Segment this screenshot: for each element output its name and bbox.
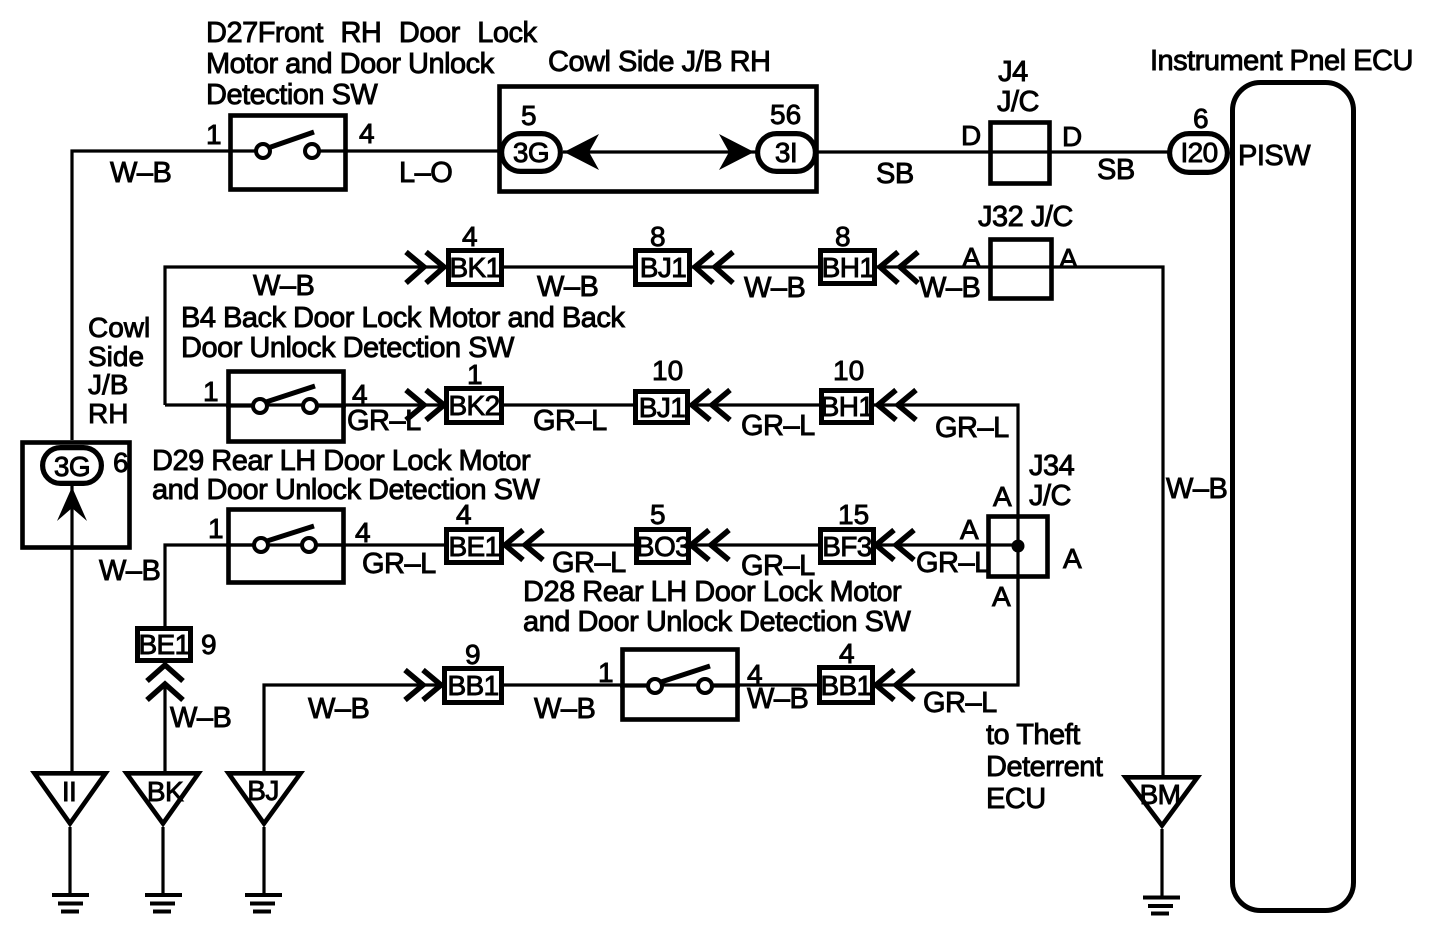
svg-text:W–B: W–B xyxy=(534,693,595,725)
svg-text:BB1: BB1 xyxy=(447,670,498,701)
arrow right into 3I xyxy=(719,134,754,170)
svg-text:D: D xyxy=(961,120,981,151)
svg-text:4: 4 xyxy=(355,517,371,548)
connector BB1 second row5 xyxy=(820,668,873,703)
svg-text:8: 8 xyxy=(835,221,851,252)
arrow up into 3G xyxy=(57,487,87,521)
svg-text:Cowl Side J/B RH: Cowl Side J/B RH xyxy=(548,46,770,78)
label B4 Back Door Lock Motor xyxy=(181,302,625,364)
chevrons left after BJ1 xyxy=(695,252,733,283)
svg-text:W–B: W–B xyxy=(1166,473,1227,505)
svg-text:BK2: BK2 xyxy=(448,390,499,421)
svg-text:W–B: W–B xyxy=(537,271,598,303)
svg-text:W–B: W–B xyxy=(308,693,369,725)
svg-text:Motor and Door Unlock: Motor and Door Unlock xyxy=(206,48,495,80)
connector BE1 (left, row5) xyxy=(138,629,191,661)
svg-text:1: 1 xyxy=(598,657,614,688)
svg-text:ECU: ECU xyxy=(986,783,1046,815)
svg-text:D28 Rear LH Door Lock Motor: D28 Rear LH Door Lock Motor xyxy=(523,576,902,608)
svg-text:10: 10 xyxy=(652,355,683,386)
svg-text:Instrument Pnel ECU: Instrument Pnel ECU xyxy=(1150,45,1413,77)
wire left vertical to II xyxy=(70,550,73,771)
ground BK xyxy=(145,895,182,912)
svg-text:BO3: BO3 xyxy=(636,531,690,562)
svg-text:GR–L: GR–L xyxy=(741,410,815,442)
svg-text:A: A xyxy=(960,514,979,545)
connector BO3 xyxy=(636,530,690,563)
svg-text:GR–L: GR–L xyxy=(533,405,607,437)
label J4 J/C xyxy=(997,56,1039,118)
connector BF3 xyxy=(821,530,874,563)
label D28 Rear LH Door Lock Motor xyxy=(523,576,911,638)
svg-text:BJ1: BJ1 xyxy=(639,392,685,423)
svg-text:A: A xyxy=(962,242,981,273)
connector 3G oval xyxy=(502,134,561,172)
wire W-B row2 from corner to BM wire xyxy=(165,267,1163,775)
label D27 Front RH Door Lock Motor and Door Unlock Detection SW xyxy=(206,17,538,111)
chevrons left row3 b xyxy=(878,390,916,420)
chevrons right row5 xyxy=(405,670,441,700)
svg-text:L–O: L–O xyxy=(399,157,452,189)
svg-text:BK: BK xyxy=(147,776,184,807)
switch B4 xyxy=(226,372,346,442)
wire W-B from D27 pin1 down left side xyxy=(72,151,228,440)
svg-text:A: A xyxy=(993,481,1012,512)
connector BK1 xyxy=(449,251,502,285)
svg-text:J/C: J/C xyxy=(1029,480,1071,512)
svg-text:PISW: PISW xyxy=(1238,140,1311,172)
svg-text:4: 4 xyxy=(462,221,478,252)
svg-text:9: 9 xyxy=(465,639,481,670)
svg-text:BH1: BH1 xyxy=(821,391,874,422)
svg-text:Side: Side xyxy=(88,341,144,372)
triangle BK xyxy=(127,773,199,823)
ground BM xyxy=(1143,898,1180,914)
svg-text:1: 1 xyxy=(206,119,222,150)
svg-text:BH1: BH1 xyxy=(822,252,875,283)
chevrons left row5 xyxy=(876,670,914,700)
triangle II xyxy=(35,773,106,823)
svg-text:4: 4 xyxy=(839,638,855,669)
connector 3I oval xyxy=(758,134,816,172)
svg-text:J4: J4 xyxy=(998,56,1028,88)
svg-text:6: 6 xyxy=(1193,103,1209,134)
svg-text:9: 9 xyxy=(201,629,217,660)
junction J32 J/C xyxy=(991,240,1052,299)
svg-text:GR–L: GR–L xyxy=(916,547,990,579)
connector BH1 row3 xyxy=(821,391,874,423)
svg-text:6: 6 xyxy=(113,447,129,478)
svg-text:and Door Unlock Detection SW: and Door Unlock Detection SW xyxy=(523,606,911,638)
ground II xyxy=(52,895,89,912)
svg-text:RH: RH xyxy=(88,398,128,429)
wire L-O xyxy=(348,149,500,152)
triangle BM xyxy=(1126,777,1198,825)
connector BK2 xyxy=(447,389,502,423)
svg-text:W–B: W–B xyxy=(99,555,160,587)
label Cowl Side J/B RH (left) xyxy=(88,312,150,429)
connector BB1 row5 xyxy=(445,669,502,703)
svg-text:1: 1 xyxy=(208,513,224,544)
label to Theft Deterrent ECU xyxy=(986,719,1103,815)
svg-text:5: 5 xyxy=(521,100,537,131)
svg-text:10: 10 xyxy=(833,355,864,386)
svg-text:SB: SB xyxy=(1097,154,1135,186)
svg-text:1: 1 xyxy=(467,359,483,390)
svg-text:W–B: W–B xyxy=(110,157,171,189)
chevrons left row3 a xyxy=(692,390,730,420)
connector BJ1 row2 xyxy=(636,251,690,285)
svg-text:BE1: BE1 xyxy=(138,629,189,660)
svg-text:B4 Back Door Lock Motor and Ba: B4 Back Door Lock Motor and Back xyxy=(181,302,625,334)
svg-text:BB1: BB1 xyxy=(820,670,871,701)
wire row5 xyxy=(264,579,1018,771)
chevrons left after BH1 xyxy=(880,252,918,283)
wire II to ground xyxy=(68,827,71,893)
svg-text:D27Front RH Door Lock: D27Front RH Door Lock xyxy=(206,17,538,49)
wire through Cowl box to I20 xyxy=(563,150,1169,153)
svg-text:A: A xyxy=(1063,543,1082,574)
connector BJ1 row3 xyxy=(636,392,688,424)
svg-text:to Theft: to Theft xyxy=(986,719,1080,751)
svg-text:5: 5 xyxy=(650,499,666,530)
svg-text:W–B: W–B xyxy=(744,272,805,304)
chevrons left row4 c xyxy=(876,530,914,560)
connector BH1 row2 xyxy=(821,251,875,284)
svg-text:Detection SW: Detection SW xyxy=(206,79,378,111)
svg-text:W–B: W–B xyxy=(170,702,231,734)
svg-text:15: 15 xyxy=(838,499,869,530)
switch D29 xyxy=(226,510,346,583)
connector I20 xyxy=(1170,134,1228,173)
svg-text:4: 4 xyxy=(359,118,375,149)
chevrons up below BE1 xyxy=(147,665,183,700)
arrow left into 3G xyxy=(564,134,599,170)
svg-text:BF3: BF3 xyxy=(822,531,872,562)
svg-text:II: II xyxy=(62,776,76,807)
ground BJ xyxy=(245,895,282,912)
svg-text:J34: J34 xyxy=(1029,450,1075,482)
chevrons right row2 xyxy=(406,252,444,283)
wire BM to ground xyxy=(1160,829,1163,896)
switch D28 xyxy=(620,650,740,720)
svg-text:BK1: BK1 xyxy=(449,252,500,283)
svg-text:8: 8 xyxy=(650,221,666,252)
chevrons right row3 xyxy=(406,390,444,420)
switch D27 xyxy=(228,116,348,190)
label D29 Rear LH Door Lock Motor xyxy=(152,445,540,506)
svg-text:3I: 3I xyxy=(775,137,797,168)
chevrons left row4 b xyxy=(691,530,729,560)
svg-text:3G: 3G xyxy=(54,451,90,482)
svg-text:1: 1 xyxy=(203,376,219,407)
svg-text:56: 56 xyxy=(770,99,801,130)
junction J34 J/C xyxy=(989,517,1048,577)
svg-text:D: D xyxy=(1062,121,1082,152)
svg-text:W–B: W–B xyxy=(253,270,314,302)
svg-text:BJ1: BJ1 xyxy=(640,252,686,283)
junction J4 J/C xyxy=(991,123,1050,184)
svg-text:GR–L: GR–L xyxy=(935,412,1009,444)
wire row4 xyxy=(165,545,1018,626)
svg-text:GR–L: GR–L xyxy=(552,547,626,579)
svg-text:4: 4 xyxy=(456,499,472,530)
wire row3 GR-L xyxy=(165,405,1018,685)
svg-text:BJ: BJ xyxy=(247,775,278,806)
svg-text:W–B: W–B xyxy=(919,272,980,304)
svg-text:Deterrent: Deterrent xyxy=(986,751,1103,783)
wire BK to ground xyxy=(161,827,164,893)
svg-text:Cowl: Cowl xyxy=(88,312,150,343)
svg-text:BE1: BE1 xyxy=(448,531,499,562)
svg-text:GR–L: GR–L xyxy=(923,687,997,719)
svg-text:W–B: W–B xyxy=(747,683,808,715)
ECU box Instrument Pnel ECU xyxy=(1233,83,1354,911)
svg-text:GR–L: GR–L xyxy=(362,548,436,580)
junction box Cowl Side J/B RH (left) xyxy=(23,443,130,551)
chevrons left row4 a xyxy=(505,530,543,560)
svg-text:J/C: J/C xyxy=(997,86,1039,118)
svg-text:BM: BM xyxy=(1140,779,1181,810)
svg-text:A: A xyxy=(992,581,1011,612)
svg-text:3G: 3G xyxy=(513,137,549,168)
junction box Cowl Side J/B RH (top) xyxy=(500,87,817,192)
svg-text:J32 J/C: J32 J/C xyxy=(978,201,1073,233)
svg-text:D29 Rear LH Door Lock Motor: D29 Rear LH Door Lock Motor xyxy=(152,445,531,477)
svg-text:I20: I20 xyxy=(1180,137,1217,168)
svg-text:SB: SB xyxy=(876,158,914,190)
svg-text:GR–L: GR–L xyxy=(347,405,421,437)
svg-text:A: A xyxy=(1059,243,1078,274)
connector BE1 row4 xyxy=(447,530,502,563)
svg-text:and Door Unlock Detection SW: and Door Unlock Detection SW xyxy=(152,474,540,506)
label J34 J/C xyxy=(1029,450,1075,512)
triangle BJ xyxy=(229,773,301,823)
wire BJ to ground xyxy=(262,827,265,893)
svg-text:Door Unlock Detection SW: Door Unlock Detection SW xyxy=(181,332,515,364)
svg-text:J/B: J/B xyxy=(88,369,128,400)
wire W-B down to BK xyxy=(163,684,166,771)
